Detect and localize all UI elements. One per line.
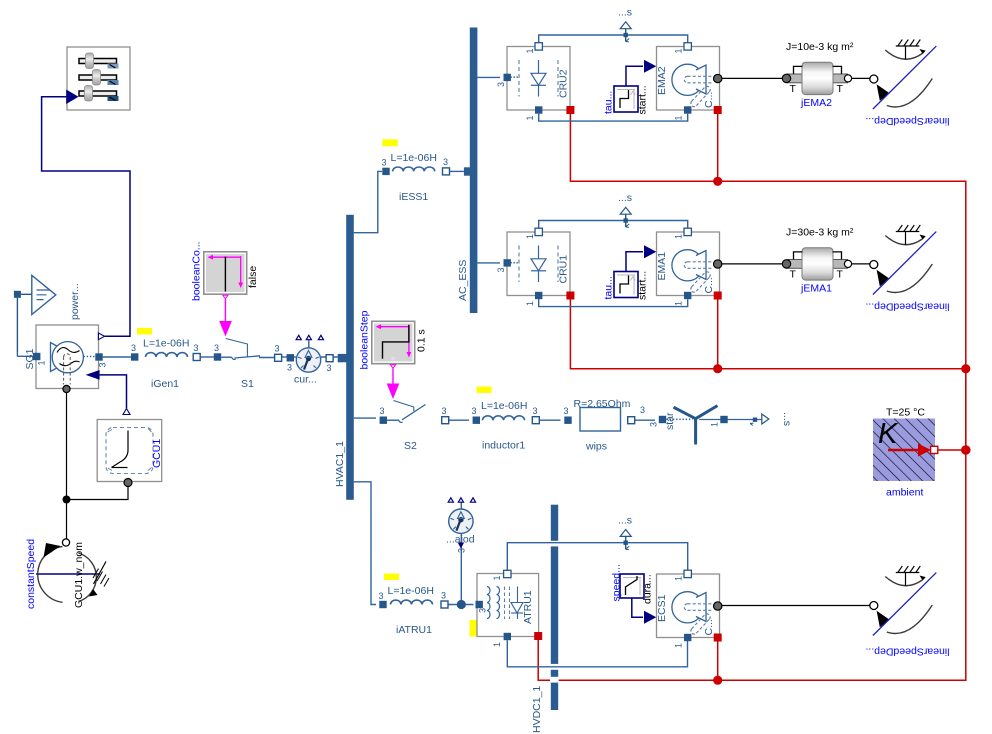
wire GCU1 to generator exciter	[100, 375, 127, 408]
svg-text:S1: S1	[241, 378, 254, 390]
wire EMA1 heat down	[717, 298, 719, 369]
svg-text:3: 3	[640, 405, 645, 415]
svg-text:linearSpeedDep...: linearSpeedDep...	[865, 115, 949, 127]
svg-text:L=1e-06H: L=1e-06H	[391, 152, 437, 164]
motor EMA1	[656, 228, 722, 306]
svg-text:...s: ...s	[781, 412, 793, 426]
svg-text:K: K	[878, 418, 899, 450]
node speed sensor row2	[618, 192, 632, 227]
svg-text:HVAC1_1: HVAC1_1	[334, 441, 346, 487]
svg-text:1: 1	[525, 48, 535, 53]
wire GCU1 flange down/left	[67, 487, 129, 500]
svg-text:3: 3	[533, 406, 538, 416]
motor EMA2	[656, 43, 722, 121]
wire EMA1 shaft to jEMA1	[722, 263, 783, 265]
svg-text:3: 3	[457, 548, 467, 553]
dotted to right pin	[84, 356, 96, 358]
load linearSpeedDep1 (row2)	[865, 225, 949, 313]
svg-text:J=10e-3 kg m²: J=10e-3 kg m²	[786, 41, 854, 53]
svg-text:L=1e-06H: L=1e-06H	[143, 338, 189, 350]
wire iGen1 to S1	[200, 356, 215, 358]
wire iATRU1 to junction to ATRU1	[448, 604, 474, 606]
wire S2 to inductor1	[448, 419, 469, 421]
svg-text:star: star	[664, 412, 676, 430]
wire AC_ESS to CRU2	[477, 76, 500, 78]
svg-text:3: 3	[194, 343, 199, 353]
svg-text:R=2.65Ohm: R=2.65Ohm	[574, 398, 631, 410]
wire ATRU1 bottom to ECS1 bottom	[507, 640, 687, 667]
svg-text:ambient: ambient	[886, 487, 923, 499]
svg-text:SG1: SG1	[24, 348, 36, 369]
rectifier ATRU1	[470, 570, 543, 647]
horn	[51, 343, 60, 372]
svg-text:3: 3	[564, 406, 569, 416]
wire jEMA2 to linearSpeedDep	[849, 77, 870, 79]
wire ECS1 shaft to linearSpeedDep2	[722, 605, 870, 607]
svg-text:3: 3	[327, 363, 332, 373]
wire S1 to cur sensor	[281, 356, 297, 358]
svg-text:3: 3	[275, 344, 280, 354]
wire ATRU1 heat down	[538, 640, 550, 680]
wire jEMA1 to linearSpeedDep1	[849, 263, 870, 265]
svg-text:1: 1	[492, 575, 502, 580]
bus HVDC1_1 (segments with wire gaps)	[551, 505, 558, 710]
svg-text:1: 1	[674, 48, 684, 53]
wire EMA2 heat down	[717, 112, 719, 181]
load linearSpeedDep2 (row3)	[865, 566, 949, 658]
svg-text:C...: C...	[703, 277, 715, 293]
ambient	[873, 407, 938, 499]
svg-text:1: 1	[674, 576, 684, 581]
svg-text:ECS1: ECS1	[656, 594, 668, 622]
svg-text:0.1 s: 0.1 s	[416, 329, 428, 352]
wire ATRU1 top to ECS1 top	[507, 543, 687, 570]
svg-text:speed...: speed...	[611, 564, 623, 601]
ramp block speed (row3)	[611, 564, 657, 624]
svg-text:3: 3	[380, 406, 385, 416]
wire sliders to generator	[42, 97, 130, 337]
svg-text:C...: C...	[703, 92, 715, 108]
svg-text:3: 3	[442, 406, 447, 416]
svg-text:1: 1	[37, 360, 47, 365]
constantSpeed source	[25, 539, 109, 609]
dashed rotor capsule down	[64, 354, 71, 385]
svg-text:iGen1: iGen1	[151, 378, 179, 390]
svg-text:EMA1: EMA1	[656, 252, 668, 281]
svg-text:L=1e-06H: L=1e-06H	[388, 585, 434, 597]
svg-text:CRU2: CRU2	[558, 69, 570, 98]
wire EMA2 shaft to jEMA2	[722, 77, 783, 79]
inertia jEMA2	[782, 41, 854, 109]
svg-text:3: 3	[131, 343, 136, 353]
torque block tau (row2)	[603, 245, 657, 300]
wire inductor1 to wips	[539, 419, 560, 421]
svg-text:tau...: tau...	[603, 91, 615, 114]
booleanConstant booleanCo...	[191, 241, 260, 336]
svg-text:3: 3	[98, 362, 108, 367]
wire generator to iGen1	[103, 356, 131, 358]
wire CRU2 bottom to EMA2 bottom	[539, 114, 688, 122]
svg-text:constantSpeed: constantSpeed	[25, 539, 37, 609]
star (neutral)	[649, 406, 794, 445]
inductor inductor1	[472, 387, 540, 452]
svg-text:linearSpeedDep...: linearSpeedDep...	[865, 301, 949, 313]
svg-text:...s: ...s	[618, 7, 632, 19]
svg-text:...s: ...s	[618, 515, 632, 527]
svg-text:C...: C...	[703, 619, 715, 635]
svg-text:1: 1	[674, 234, 684, 239]
svg-text:3: 3	[496, 267, 506, 272]
svg-text:3: 3	[382, 158, 387, 168]
svg-text:iESS1: iESS1	[399, 191, 428, 203]
svg-text:3: 3	[287, 363, 292, 373]
wire HVAC to iATRU1	[354, 482, 376, 605]
wire CRU2 heat down	[570, 114, 965, 448]
wire wips to star	[635, 419, 656, 421]
wire CRU2 top to EMA2 top	[539, 35, 688, 43]
wire HVAC to S2	[354, 417, 376, 419]
svg-text:dura...: dura...	[642, 574, 654, 604]
booleanStep	[359, 310, 428, 399]
inductor iGen1	[131, 328, 200, 390]
damper curves	[57, 348, 80, 353]
torque block tau (row1)	[603, 60, 657, 115]
svg-text:3: 3	[443, 157, 448, 167]
svg-text:3: 3	[214, 343, 219, 353]
svg-text:AC_ESS: AC_ESS	[457, 260, 469, 301]
svg-text:GCU1.w_nom: GCU1.w_nom	[73, 542, 85, 608]
wire CRU1 heat down	[570, 300, 965, 369]
svg-text:...s: ...s	[618, 192, 632, 204]
svg-text:jEMA1: jEMA1	[800, 283, 832, 295]
ground hatch	[94, 562, 107, 585]
svg-text:S2: S2	[404, 440, 417, 452]
svg-text:iATRU1: iATRU1	[396, 624, 432, 636]
node speed sensor row3	[618, 515, 632, 550]
svg-text:L=1e-06H: L=1e-06H	[481, 400, 527, 412]
wire HVAC to iESS1	[354, 171, 382, 232]
svg-text:J=30e-3 kg m²: J=30e-3 kg m²	[786, 227, 854, 239]
svg-text:EMA2: EMA2	[656, 66, 668, 95]
output arrow s...	[753, 418, 757, 422]
generator SG1	[24, 325, 108, 393]
svg-text:start...: start...	[637, 271, 649, 300]
svg-text:T=25 °C: T=25 °C	[886, 407, 925, 419]
sliders block (power setpoints)	[66, 47, 130, 110]
sensor cur...	[287, 335, 334, 385]
wire iESS1 to AC_ESS	[449, 170, 464, 172]
motor ECS1	[656, 570, 722, 648]
svg-text:3: 3	[472, 406, 477, 416]
wire ambient to junction	[938, 449, 966, 451]
wire generator shaft down	[66, 393, 68, 540]
svg-text:1: 1	[492, 642, 502, 647]
inductor iATRU1	[379, 574, 449, 637]
svg-text:1: 1	[674, 115, 684, 120]
wire ECS1 heat down	[717, 640, 719, 681]
svg-text:1: 1	[525, 301, 535, 306]
svg-text:3: 3	[478, 608, 488, 613]
node blue junction iATRU	[457, 600, 466, 609]
GCU1	[97, 409, 163, 487]
svg-text:3: 3	[649, 422, 659, 427]
svg-text:CRU1: CRU1	[558, 255, 570, 284]
wire CRU1 bottom to EMA1 bottom	[539, 299, 688, 307]
svg-text:1: 1	[525, 115, 535, 120]
svg-text:booleanStep: booleanStep	[359, 310, 371, 369]
svg-text:3: 3	[441, 591, 446, 601]
svg-text:start...: start...	[637, 85, 649, 114]
svg-text:1: 1	[710, 422, 720, 427]
svg-text:booleanCo...: booleanCo...	[191, 241, 203, 301]
svg-text:1: 1	[525, 234, 535, 239]
svg-text:3: 3	[379, 591, 384, 601]
svg-text:false: false	[247, 266, 259, 288]
node speed sensor row1	[618, 7, 632, 42]
inertia jEMA1	[782, 227, 854, 295]
wire cur sensor to HVAC bus	[321, 356, 338, 358]
power... triangle block	[14, 275, 81, 356]
bus HVAC1_1	[338, 215, 354, 500]
svg-text:cur...: cur...	[294, 374, 317, 386]
rectifier CRU2	[496, 43, 574, 121]
wire star to out arrow	[699, 419, 762, 421]
node red junctions	[713, 177, 970, 685]
svg-text:tau...: tau...	[603, 276, 615, 299]
svg-text:HVDC1_1: HVDC1_1	[531, 686, 543, 733]
svg-text:1: 1	[674, 301, 684, 306]
sensor aiod (vertical)	[446, 498, 476, 553]
svg-text:GCU1: GCU1	[151, 439, 163, 468]
pins	[33, 353, 40, 360]
svg-text:3: 3	[496, 82, 506, 87]
switch S1 (closed)	[214, 339, 282, 391]
svg-text:jEMA2: jEMA2	[800, 97, 832, 109]
svg-text:linearSpeedDep...: linearSpeedDep...	[865, 646, 949, 658]
bus AC_ESS	[464, 28, 478, 314]
rectifier CRU1	[496, 228, 574, 306]
svg-text:power...: power...	[69, 283, 81, 320]
load linearSpeedDep (row1)	[865, 40, 949, 128]
svg-text:1: 1	[674, 643, 684, 648]
wire junction up to aiod sensor	[460, 534, 462, 602]
wire CRU1 top to EMA1 top	[539, 221, 688, 229]
svg-text:ATRU1: ATRU1	[522, 590, 534, 624]
wire right vertical to bottom	[718, 371, 966, 680]
resistor wips R=2.65Ohm	[564, 398, 646, 453]
wire AC_ESS to CRU1	[477, 262, 500, 264]
switch S2 (open)	[380, 401, 449, 453]
svg-text:inductor1: inductor1	[482, 440, 525, 452]
svg-text:wips: wips	[585, 441, 607, 453]
